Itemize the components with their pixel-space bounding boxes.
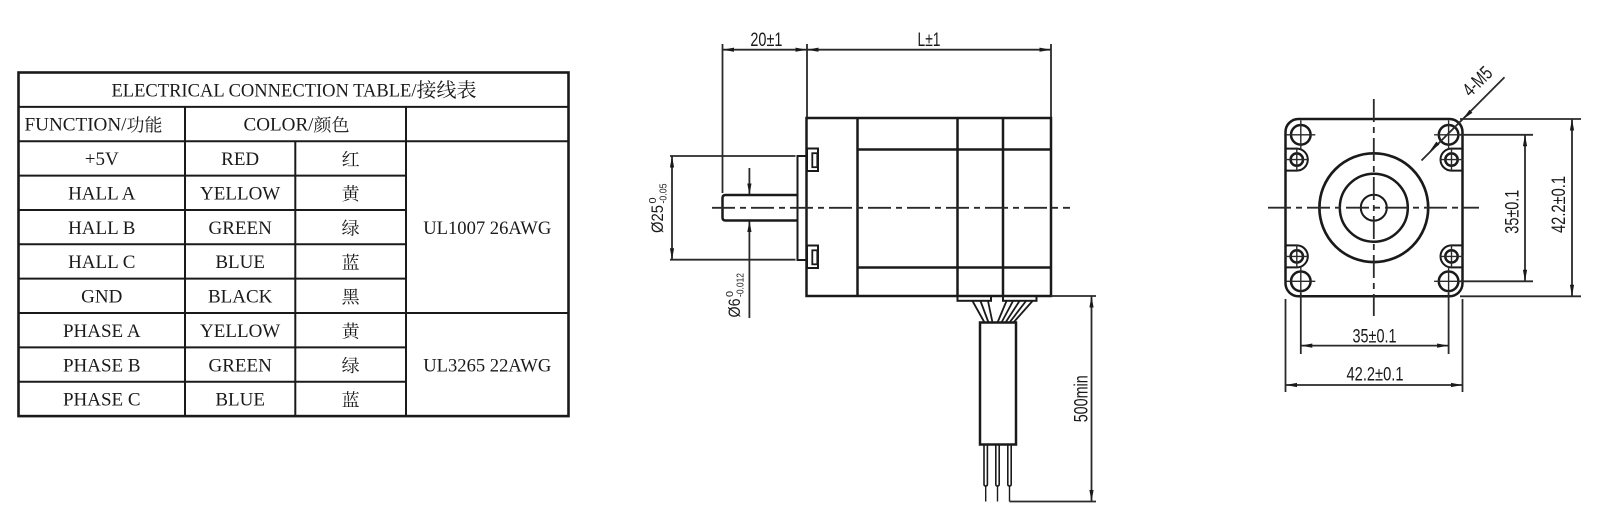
wire gauge UL3265 22AWG xyxy=(423,355,551,376)
svg-text:20±1: 20±1 xyxy=(750,29,782,51)
svg-text:HALL B: HALL B xyxy=(68,218,135,239)
svg-text:YELLOW: YELLOW xyxy=(200,183,280,204)
svg-text:PHASE B: PHASE B xyxy=(63,355,141,376)
svg-text:-0.012: -0.012 xyxy=(734,273,746,297)
wire exit tabs xyxy=(958,296,1037,301)
4-M5 mounting holes xyxy=(1291,125,1458,291)
svg-text:35±0.1: 35±0.1 xyxy=(1353,325,1397,347)
dimension 500min wire length xyxy=(1010,296,1097,502)
svg-text:RED: RED xyxy=(221,149,259,170)
shaft centerline xyxy=(712,207,1070,209)
bearing housing circle xyxy=(1340,174,1408,242)
table row PHASE C xyxy=(63,390,359,411)
dimension Ø6 shaft xyxy=(724,168,752,318)
dimension 35±0.1 vertical xyxy=(1460,135,1533,281)
svg-text:GREEN: GREEN xyxy=(208,218,272,239)
table row PHASE A xyxy=(63,321,359,342)
small mounting holes xyxy=(1291,153,1458,262)
svg-text:Ø6: Ø6 xyxy=(725,299,744,318)
dimension L±1 xyxy=(807,29,1051,117)
svg-text:GND: GND xyxy=(81,287,122,308)
svg-text:PHASE C: PHASE C xyxy=(63,390,141,411)
svg-text:UL3265 22AWG: UL3265 22AWG xyxy=(423,355,551,376)
mounting screw bottom (side view) xyxy=(807,246,818,269)
svg-text:UL1007 26AWG: UL1007 26AWG xyxy=(423,218,551,239)
svg-text:YELLOW: YELLOW xyxy=(200,321,280,342)
fanned wires into sleeve xyxy=(973,301,1033,323)
svg-text:42.2±0.1: 42.2±0.1 xyxy=(1347,364,1404,386)
shaft circle xyxy=(1361,195,1387,221)
svg-text:L±1: L±1 xyxy=(918,29,941,51)
svg-text:500min: 500min xyxy=(1071,375,1093,422)
front boss (side view) xyxy=(798,156,807,260)
table: electrical connection table xyxy=(19,73,569,417)
svg-text:Ø25: Ø25 xyxy=(648,205,667,233)
dimension 42.2±0.1 vertical xyxy=(1460,119,1581,296)
dimension Ø25 boss xyxy=(647,156,795,260)
cable sleeve xyxy=(980,323,1016,445)
flange plate (front view) xyxy=(1286,119,1463,296)
front view centerlines xyxy=(1268,99,1479,316)
svg-text:-0.05: -0.05 xyxy=(658,183,670,203)
mounting screw top (side view) xyxy=(807,149,818,172)
table row HALL A xyxy=(68,183,359,204)
svg-text:BLACK: BLACK xyxy=(208,287,273,308)
svg-text:PHASE A: PHASE A xyxy=(63,321,141,342)
svg-text:+5V: +5V xyxy=(85,149,119,170)
dimension 35±0.1 horizontal xyxy=(1301,293,1449,354)
dimension 42.2±0.1 horizontal xyxy=(1286,299,1463,392)
hole crosshairs xyxy=(1285,120,1464,295)
svg-text:ELECTRICAL CONNECTION TABLE/: ELECTRICAL CONNECTION TABLE/ xyxy=(112,80,418,101)
svg-text:HALL C: HALL C xyxy=(68,252,135,273)
motor body outline (side view) xyxy=(807,118,1052,296)
svg-text:42.2±0.1: 42.2±0.1 xyxy=(1548,176,1570,233)
4-M5 thread callout xyxy=(1422,62,1505,160)
svg-text:BLUE: BLUE xyxy=(215,390,265,411)
dimension 20±1 xyxy=(723,29,808,193)
table row HALL C xyxy=(68,252,359,273)
svg-text:BLUE: BLUE xyxy=(215,252,265,273)
svg-text:FUNCTION/: FUNCTION/ xyxy=(25,115,128,136)
table row GND xyxy=(81,287,359,308)
wire leads below sleeve xyxy=(984,445,1011,502)
svg-text:COLOR/: COLOR/ xyxy=(244,115,315,136)
table row +5V xyxy=(85,149,359,170)
wire gauge UL1007 26AWG xyxy=(423,218,551,239)
shaft xyxy=(723,195,798,221)
svg-text:GREEN: GREEN xyxy=(208,355,272,376)
table row PHASE B xyxy=(63,355,359,376)
table header row xyxy=(25,115,349,136)
svg-text:HALL A: HALL A xyxy=(68,183,136,204)
svg-text:35±0.1: 35±0.1 xyxy=(1502,190,1524,234)
mounting ears around small holes xyxy=(1286,149,1463,268)
pilot boss circle xyxy=(1319,153,1428,262)
table row HALL B xyxy=(68,218,359,239)
table title row xyxy=(112,80,476,101)
